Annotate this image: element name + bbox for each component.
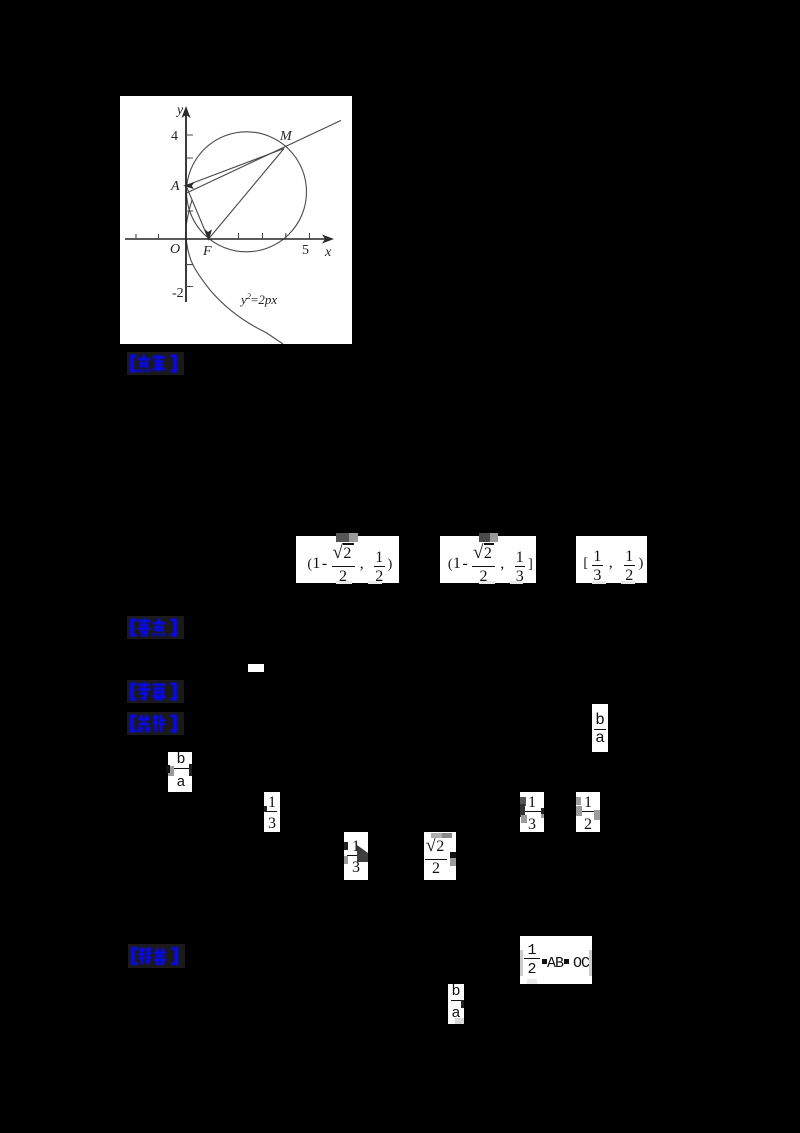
arrowhead at F [205,229,213,241]
mark left of 1/3 a [264,806,267,812]
option box 2 [440,536,536,583]
wire: F to M [209,149,285,240]
frac 1/2 a [576,792,600,832]
gray tab sqrt2/2 [431,833,442,838]
selection arrow right of 1/3 c [357,845,368,861]
frac b/a right [592,704,608,752]
wire: A to F [186,186,209,240]
x ticks [136,233,310,239]
formula half AB OC [520,936,592,984]
option box 1 [296,536,399,583]
blue label zhuanti [127,680,184,703]
svg-text:4: 4 [171,129,178,144]
frac sqrt2/2 [424,832,456,880]
parabola y^2=2px [186,200,283,344]
y ticks [186,135,193,287]
frac 1/3 a [264,792,280,832]
x-axis [125,238,330,240]
frac 1/3 b [520,792,544,832]
frac b/a bottom [448,984,464,1024]
svg-text:x: x [324,245,332,260]
light strips box3 [592,581,606,584]
circle through A,F,M [187,132,307,252]
svg-text:5: 5 [302,243,309,258]
x-axis arrowhead [322,235,334,244]
svg-text:-2: -2 [172,286,184,301]
svg-text:A: A [170,179,180,194]
y-axis [185,112,187,302]
figure: parabola/circle diagram [120,96,352,344]
gray tab box1 [336,533,349,542]
light strips box2 [479,581,495,584]
blue label kaodian [127,616,184,639]
selection marks b/a left [168,766,174,776]
arrowhead at A [183,182,195,189]
svg-text:F: F [202,244,212,259]
blue label fenxi [127,712,184,735]
light strips box1 [336,581,352,584]
selection marks 1/3 b [520,797,526,806]
frac b/a left [168,752,192,792]
wire: chord A-M [186,149,284,186]
wire: secant through M extended [187,120,342,193]
blue label dianping [127,352,184,375]
option box 3 [576,536,647,583]
svg-text:y2=2px: y2=2px [239,291,277,307]
selection marks 1/2 a [576,797,581,805]
y-axis arrowhead [182,106,191,118]
frac 1/3 c [344,832,368,880]
gray tab box2 [479,533,490,542]
white dash [248,664,264,672]
svg-text:O: O [170,242,180,257]
blue label jieda [128,944,185,968]
svg-text:M: M [279,129,293,144]
svg-text:y: y [175,103,184,118]
mark right of b/a bottom [461,1000,464,1008]
